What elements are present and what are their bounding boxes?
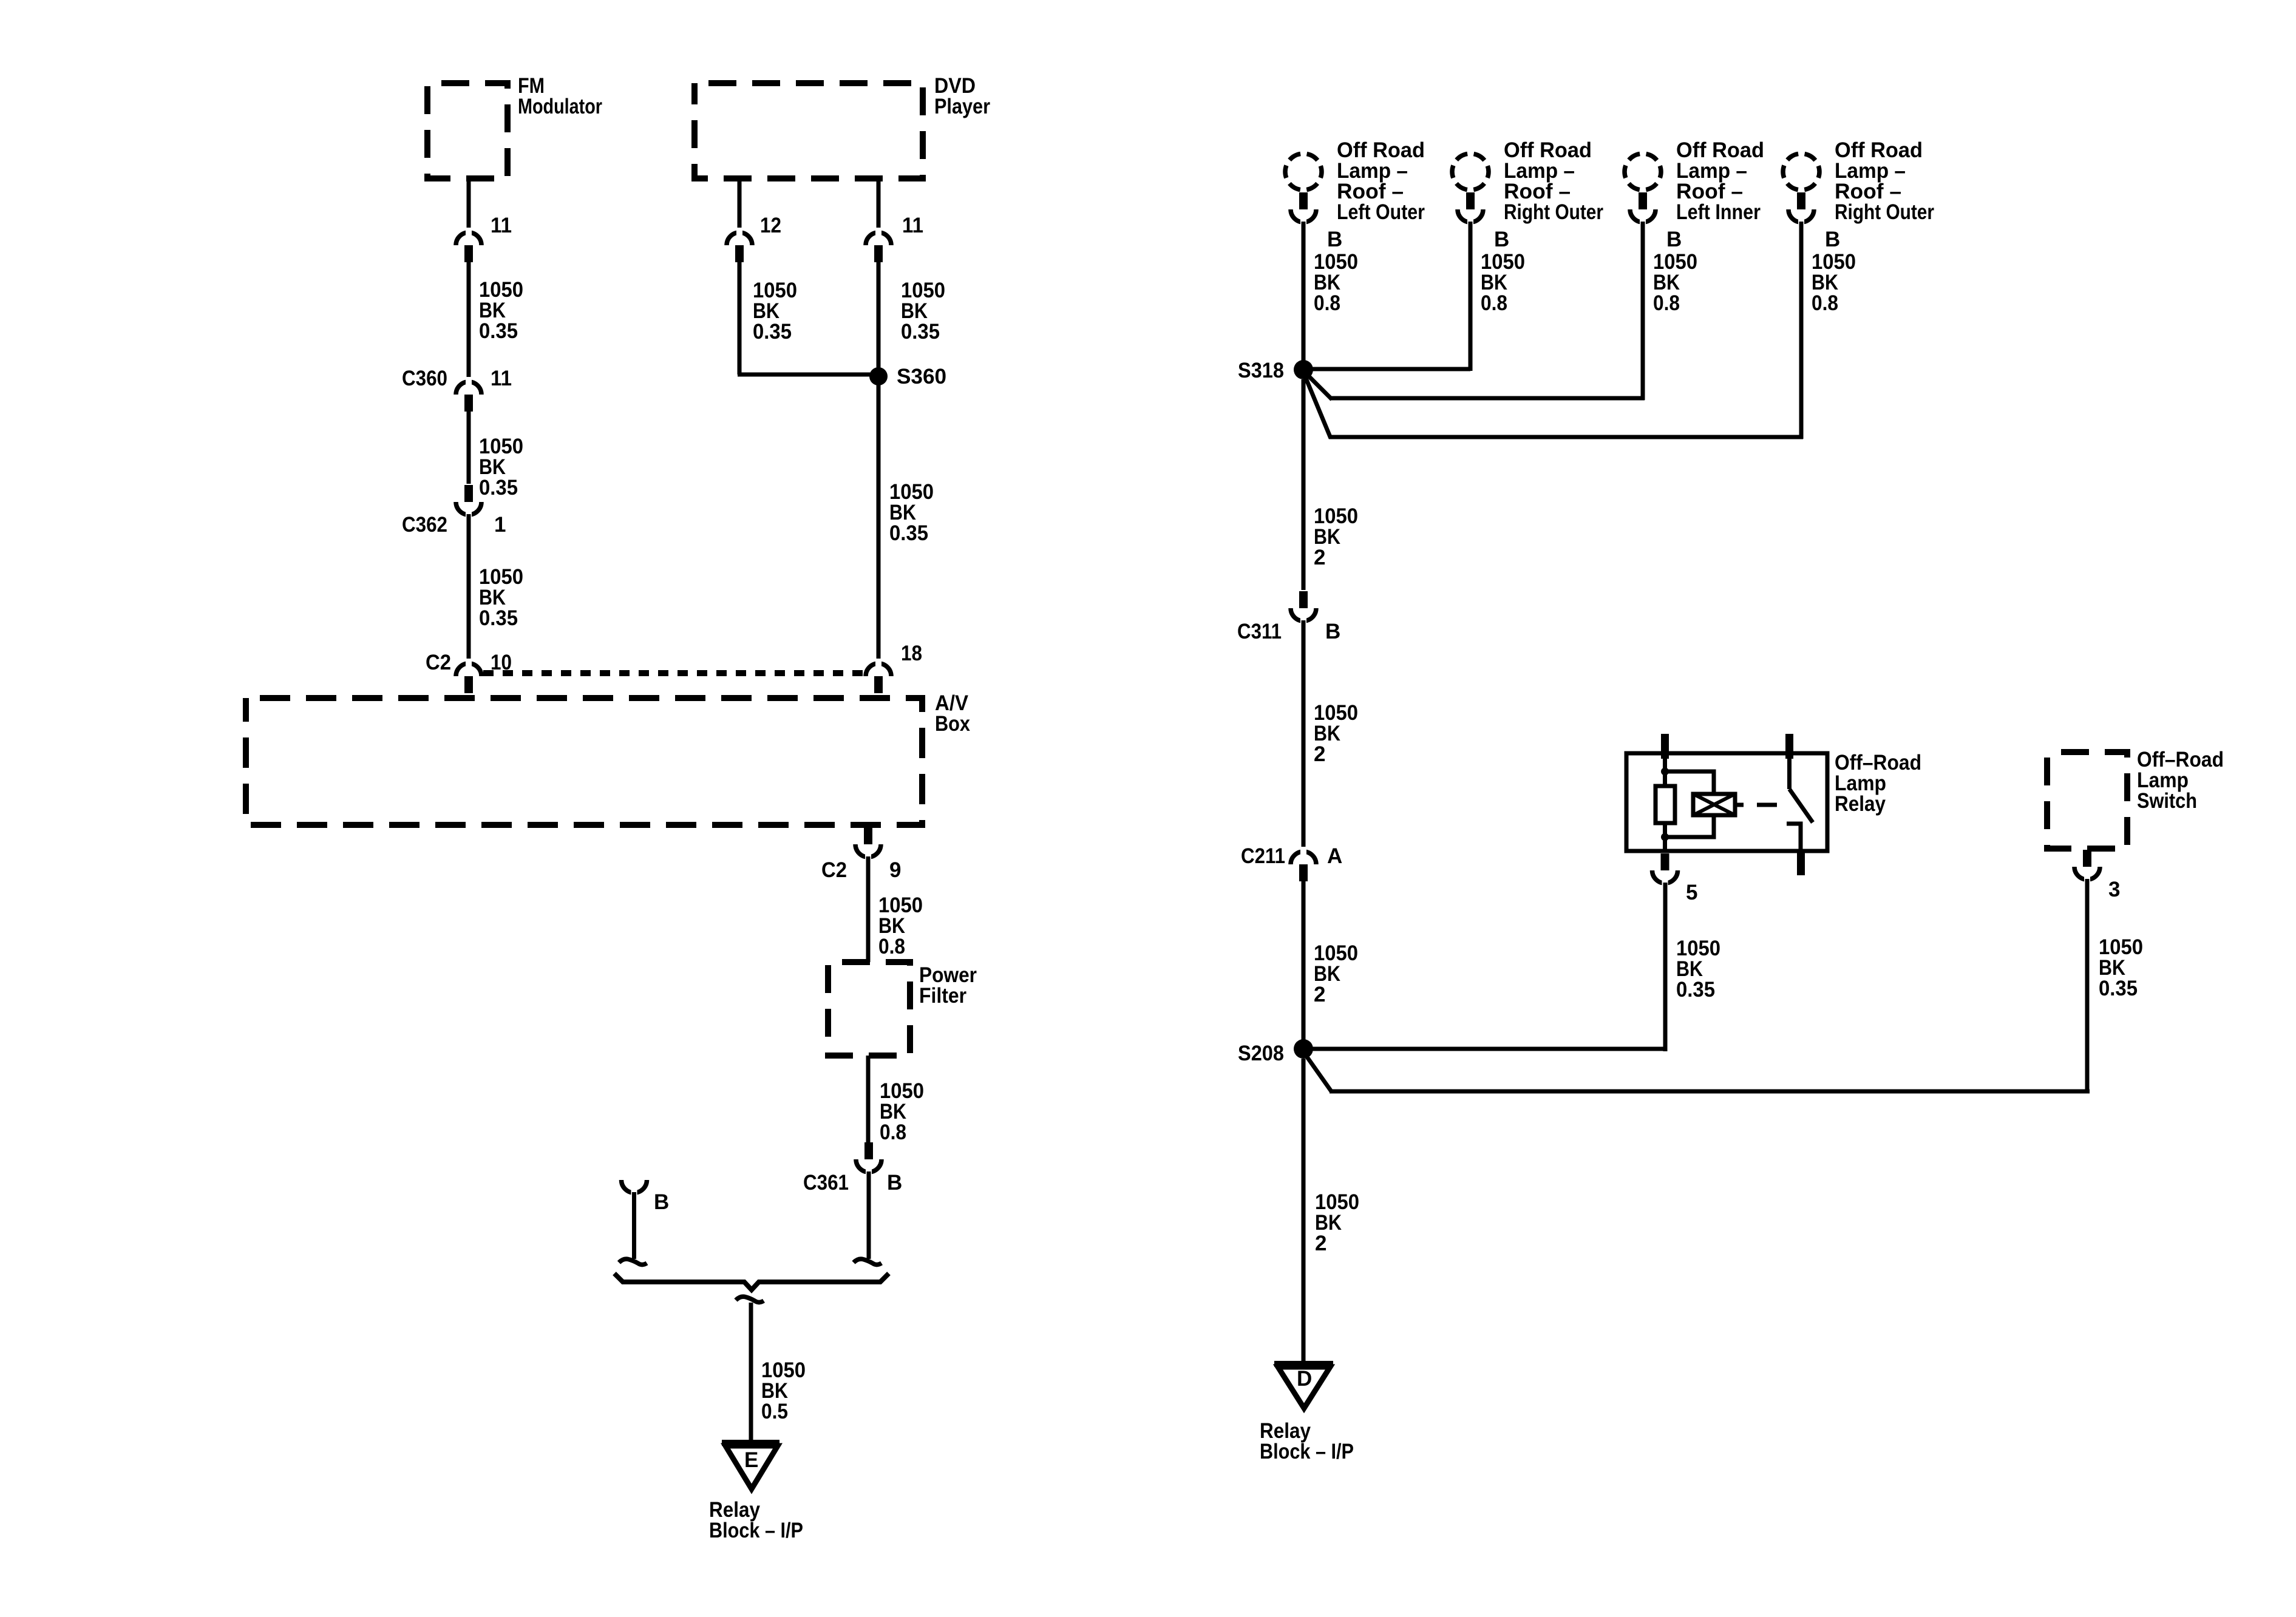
svg-text:A: A [1327,844,1342,868]
wire Power Filter to C361 [866,1056,871,1142]
svg-text:0.8: 0.8 [878,935,905,958]
splice S208 [1294,1039,1313,1059]
wire DVD-12 down to S360 [738,262,742,375]
svg-text:C361: C361 [803,1171,849,1195]
connector C361 [856,1142,881,1177]
svg-text:0.35: 0.35 [479,476,518,500]
off road lamp 1 connector pin B [1291,192,1316,227]
svg-text:Box: Box [935,712,970,736]
svg-text:0.35: 0.35 [479,606,518,630]
C2 connector dotted boundary line [483,670,863,676]
wire DVD pin 11 upper [877,178,881,230]
wire DVD pin 12 upper [738,178,742,230]
svg-text:0.35: 0.35 [2099,977,2138,1000]
off road lamp 2 bulb circle [1452,154,1489,190]
wire lamp4 to S318 [1799,222,1804,439]
svg-text:0.8: 0.8 [880,1120,906,1144]
wire C361 to splice brace [867,1171,871,1259]
wire lamp3 to S318 [1641,222,1645,400]
svg-text:0.35: 0.35 [901,320,940,344]
svg-text:Block – I/P: Block – I/P [709,1519,803,1542]
svg-text:B: B [1666,228,1682,251]
svg-text:Switch: Switch [2137,789,2197,813]
svg-text:0.35: 0.35 [889,521,928,545]
off road lamp 3 bulb circle [1625,154,1661,190]
svg-text:0.35: 0.35 [479,319,518,343]
off road lamp 1 bulb circle [1285,154,1322,190]
svg-text:Left Inner: Left Inner [1676,200,1761,224]
connector DVD pin 12 [727,228,752,262]
svg-text:0.35: 0.35 [753,320,792,344]
svg-text:C211: C211 [1241,844,1285,868]
wire S208 to relay pin 5 [1311,1047,1665,1051]
relay switch pin top-right [1785,734,1793,759]
wire FM pin 11 upper [467,178,471,230]
wire C2-9 to Power Filter [866,856,871,962]
FM Modulator box [427,83,508,178]
splice S318 [1294,360,1313,379]
connector C211 [1291,847,1316,881]
svg-text:18: 18 [901,642,922,665]
svg-text:11: 11 [491,214,512,237]
svg-text:B: B [887,1171,902,1195]
svg-text:Right Outer: Right Outer [1504,200,1603,224]
svg-text:S318: S318 [1238,359,1284,382]
Off-Road Lamp Switch box [2047,752,2127,849]
svg-text:0.8: 0.8 [1314,291,1340,315]
wire C211 to S208 [1302,881,1306,1040]
wire end squiggle left [619,1259,647,1264]
Power Filter box [828,962,910,1056]
connector C2 pin 18 [866,659,891,693]
ground symbol E bar [722,1440,779,1446]
off road lamp 4 bulb circle [1783,154,1819,190]
DVD Player box [695,83,923,178]
relay switch pin bottom-right [1797,851,1805,875]
svg-text:Left Outer: Left Outer [1337,200,1425,224]
relay coil winding X [1693,794,1735,815]
relay junction dot upper [1661,768,1669,776]
svg-text:B: B [1327,228,1342,251]
wire C360 to C362 [467,412,471,484]
relay coil tail [1735,803,1744,807]
wire lamp1 to S318 [1302,222,1306,361]
svg-text:C2: C2 [821,858,847,882]
switch connector pin 3 [2074,850,2100,884]
connector C360 [456,377,481,412]
svg-text:Filter: Filter [919,984,966,1008]
svg-text:Right Outer: Right Outer [1835,200,1934,224]
wire brace to ground E [749,1303,753,1440]
relay junction dot lower [1661,833,1669,841]
wire B to splice brace [632,1192,636,1259]
Off-Road Lamp Relay box [1626,753,1827,851]
svg-text:E: E [744,1448,758,1472]
svg-text:11: 11 [491,367,512,390]
svg-text:Relay: Relay [1835,792,1886,816]
connector FM pin 11 [456,228,481,262]
wire lamp2 to S318 [1469,222,1473,371]
svg-text:0.35: 0.35 [1676,978,1715,1002]
svg-text:Player: Player [934,95,990,118]
svg-text:B: B [1494,228,1509,251]
svg-text:C311: C311 [1237,620,1282,643]
svg-text:3: 3 [2108,878,2120,901]
splice output squiggle [736,1297,764,1302]
svg-text:S208: S208 [1238,1042,1284,1065]
svg-text:C362: C362 [402,513,447,537]
relay switch arm [1787,759,1792,789]
wire end squiggle right [854,1259,881,1264]
svg-text:2: 2 [1315,1232,1326,1255]
splice S360 [869,367,888,385]
wire S208 to switch pin 3 [1306,1056,1331,1091]
wire S208 to ground D [1302,1059,1306,1361]
relay coil wire upper [1663,759,1667,788]
svg-text:Modulator: Modulator [518,95,602,118]
svg-text:Block – I/P: Block – I/P [1260,1440,1354,1463]
svg-text:0.8: 0.8 [1812,291,1838,315]
relay actuation dashed link [1757,803,1777,807]
relay coil pin top-left [1661,734,1669,759]
svg-text:0.8: 0.8 [1653,291,1680,315]
connector B (ground eyelet) [622,1180,647,1198]
svg-text:0.8: 0.8 [1481,291,1507,315]
svg-text:C360: C360 [402,367,447,390]
svg-text:9: 9 [889,858,901,882]
wire C311 to C211 [1302,620,1306,849]
connector C2 pin 9 [855,827,881,862]
connector C311 [1291,591,1316,626]
svg-text:2: 2 [1314,546,1325,569]
svg-text:B: B [1825,228,1840,251]
off road lamp 4 connector pin B [1788,192,1814,227]
relay connector pin 5 [1652,853,1678,888]
svg-text:1: 1 [494,513,506,537]
relay resistor [1656,786,1675,823]
connector DVD pin 11 [866,228,891,262]
wire C362 to C2-10 [467,514,471,661]
svg-text:D: D [1297,1367,1312,1391]
relay coil winding box [1693,794,1735,815]
ground symbol E triangle [725,1446,778,1489]
relay coil parallel branch [1665,771,1714,837]
A/V Box dashed box [246,698,922,825]
svg-text:B: B [654,1190,669,1214]
relay fixed contact [1787,824,1801,851]
svg-text:11: 11 [902,214,923,237]
ground symbol D bar [1274,1361,1333,1367]
splice brace [614,1273,889,1290]
connector C362 [456,485,481,520]
off road lamp 3 connector pin B [1630,192,1656,227]
svg-text:2: 2 [1314,742,1325,766]
ground symbol D triangle [1278,1367,1330,1408]
svg-text:0.5: 0.5 [761,1400,788,1423]
off road lamp 2 connector pin B [1458,192,1483,227]
wire S318 to C311 [1302,379,1306,590]
svg-text:C2: C2 [426,651,451,674]
svg-text:12: 12 [760,214,781,237]
wire DVD-11 down through S360 to C2-18 [877,262,881,661]
svg-text:B: B [1325,620,1340,643]
relay coil wire lower [1663,823,1667,851]
svg-text:5: 5 [1686,881,1697,904]
svg-text:2: 2 [1314,983,1325,1006]
svg-text:S360: S360 [897,365,946,388]
wire FM-11 to C360 [467,262,471,379]
connector C2 pin 10 [456,659,481,693]
